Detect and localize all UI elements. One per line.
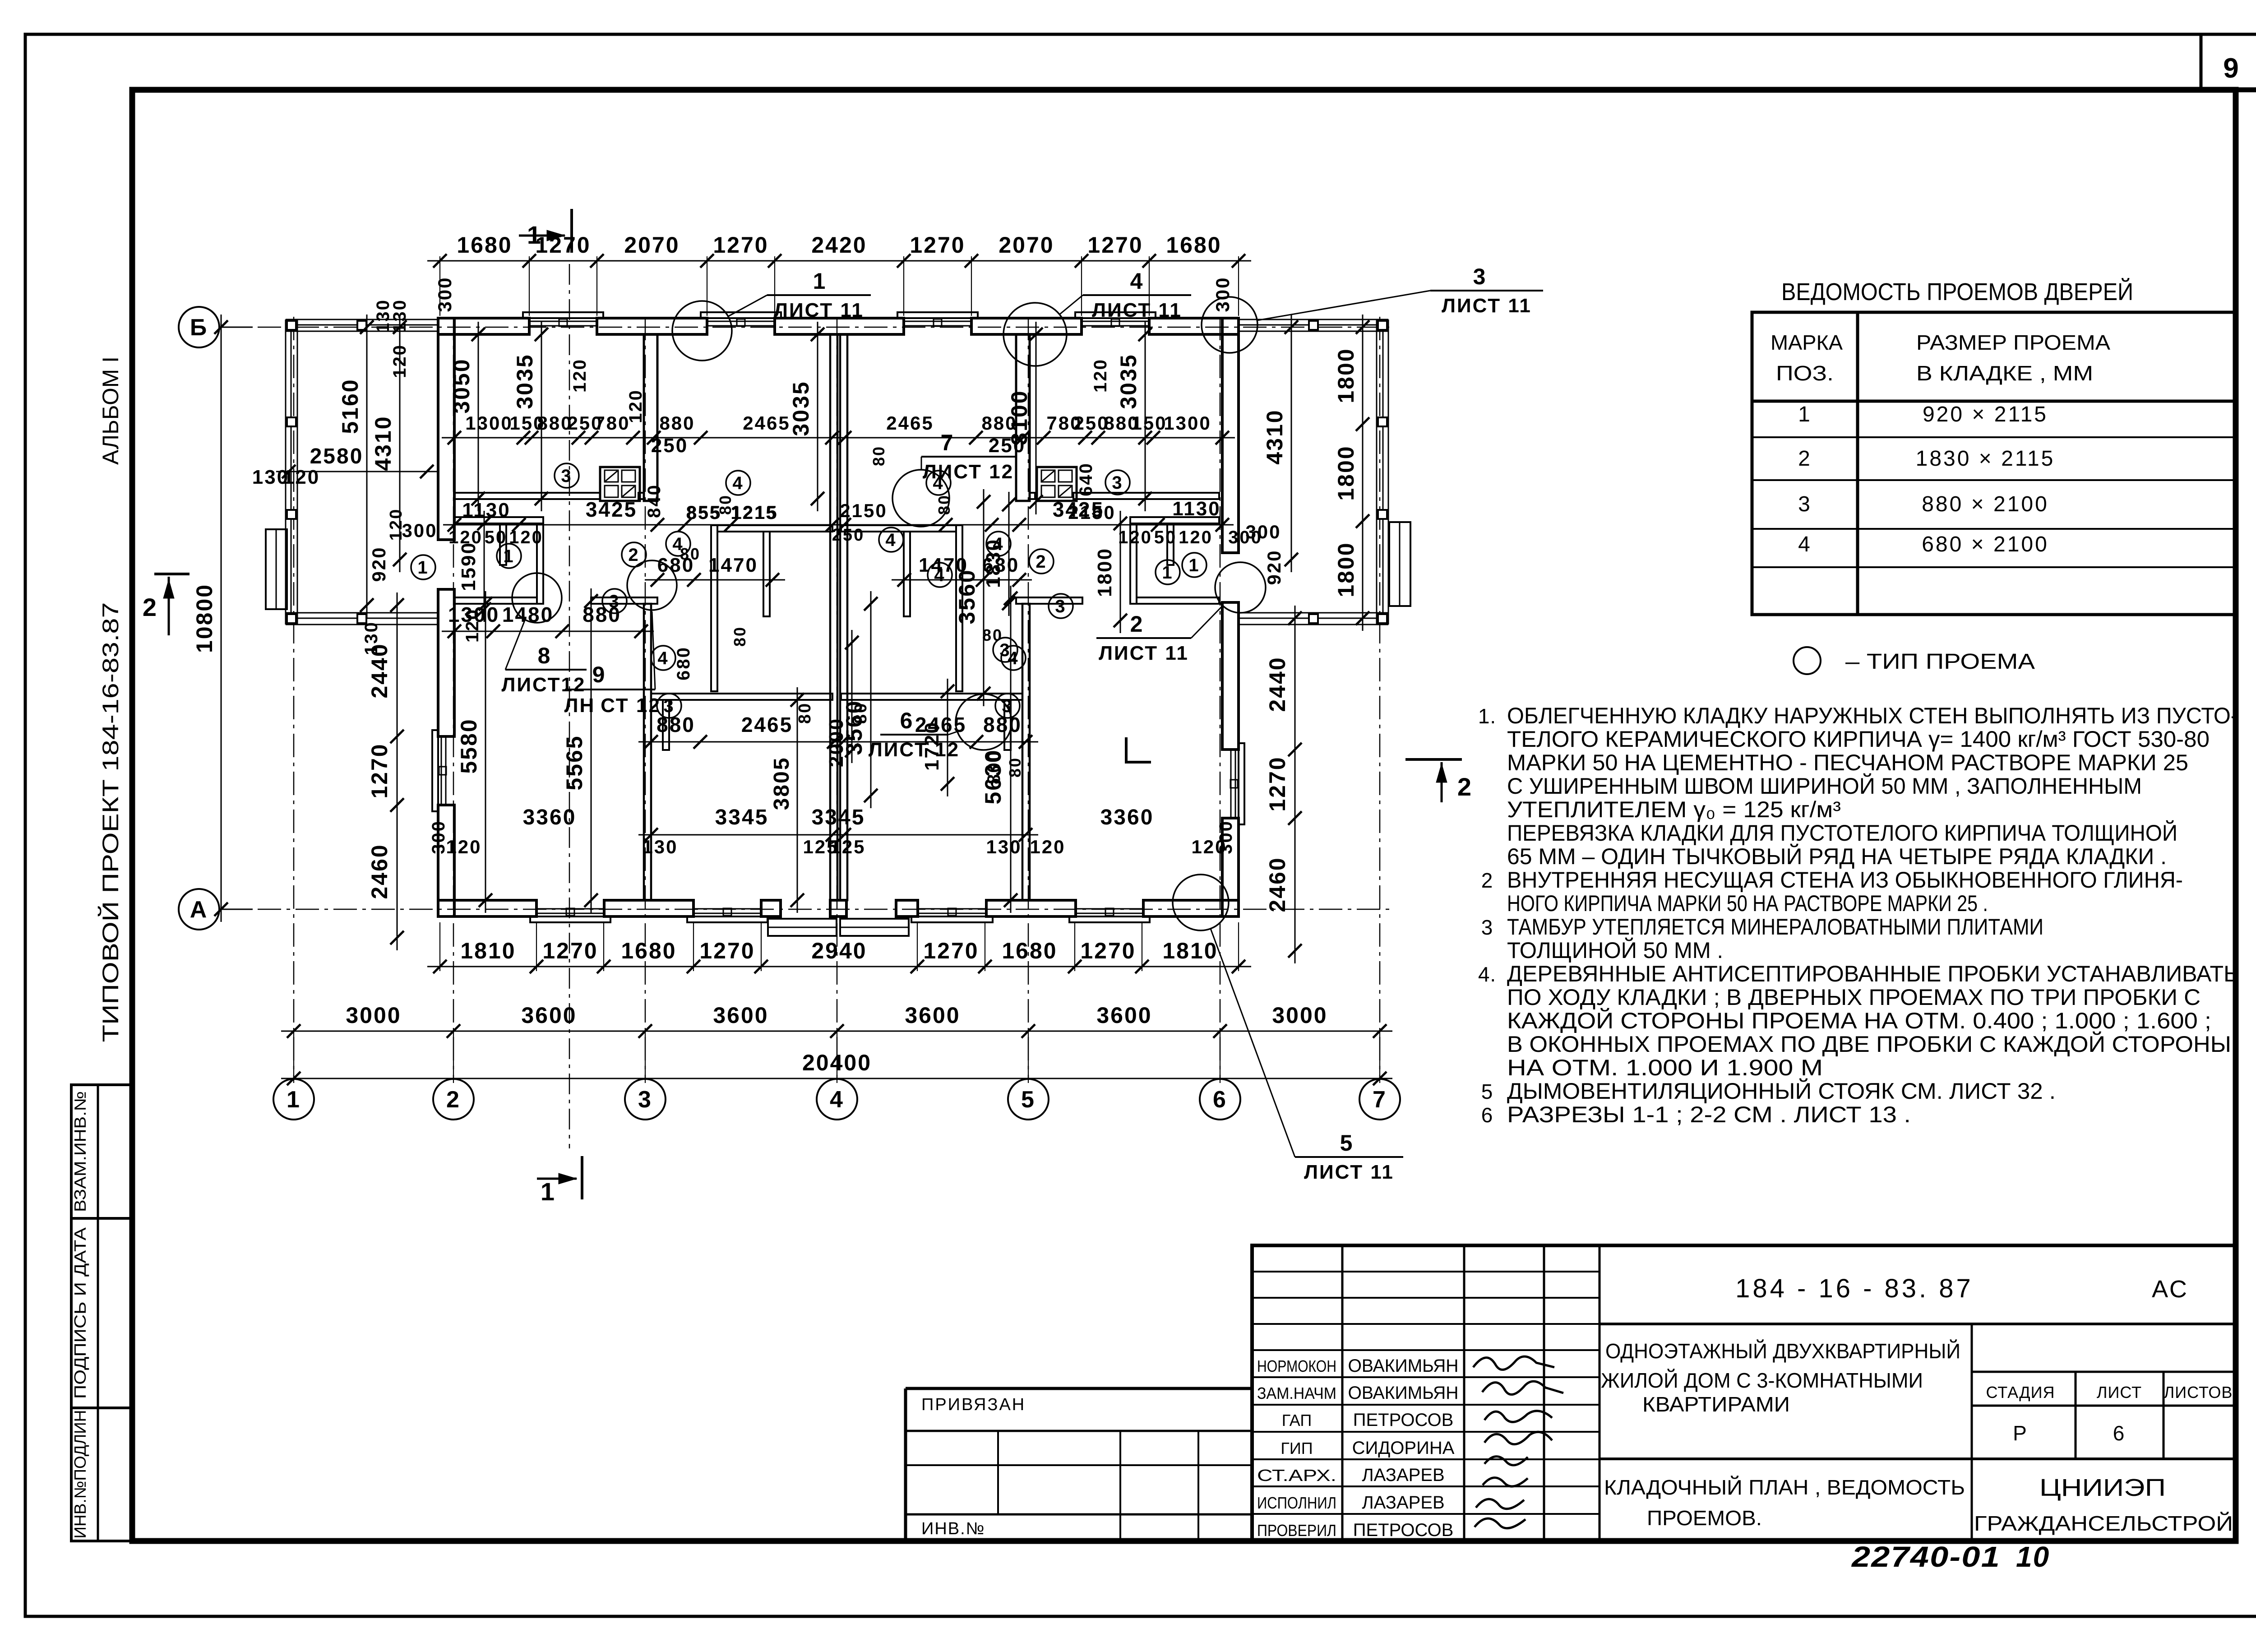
svg-text:ПЕТРОСОВ: ПЕТРОСОВ xyxy=(1353,1520,1454,1540)
svg-text:50: 50 xyxy=(1154,528,1177,547)
svg-text:920 × 2115: 920 × 2115 xyxy=(1923,403,2048,426)
svg-text:80: 80 xyxy=(869,445,888,466)
svg-text:120: 120 xyxy=(446,836,481,857)
svg-text:300: 300 xyxy=(1212,276,1233,312)
porch right step xyxy=(1389,522,1410,606)
svg-text:2150: 2150 xyxy=(840,500,887,521)
svg-text:СТАДИЯ: СТАДИЯ xyxy=(1986,1383,2055,1402)
porch right (veranda) xyxy=(1239,319,1388,625)
svg-text:ДЫМОВЕНТИЛЯЦИОННЫЙ СТОЯК СМ: ДЫМОВЕНТИЛЯЦИОННЫЙ СТОЯК СМ. ЛИСТ 32 . xyxy=(1507,1078,2056,1104)
axis circle Б xyxy=(179,307,253,347)
svg-text:ИНВ.№ПОДЛИН: ИНВ.№ПОДЛИН xyxy=(71,1410,89,1539)
dimension chain depth 1800 right xyxy=(1094,511,1127,633)
svg-text:1270: 1270 xyxy=(1265,756,1290,811)
svg-text:2465: 2465 xyxy=(886,412,934,434)
svg-text:ЛН: ЛН xyxy=(564,694,596,717)
svg-text:3000: 3000 xyxy=(1272,1003,1327,1028)
svg-text:2000: 2000 xyxy=(825,717,847,767)
svg-text:120: 120 xyxy=(1030,836,1065,857)
exterior wall right (axis 6) xyxy=(1222,318,1244,916)
axis line Б horizontal xyxy=(220,327,1394,328)
svg-text:1300: 1300 xyxy=(1164,412,1211,434)
svg-text:1300: 1300 xyxy=(465,412,513,434)
svg-text:22740-01: 22740-01 xyxy=(1851,1541,2001,1573)
svg-text:640: 640 xyxy=(1076,462,1096,496)
svg-text:6: 6 xyxy=(1213,1087,1227,1113)
svg-text:920: 920 xyxy=(1263,549,1285,585)
sidebar box label ВЗАМ.ИНВ.№ xyxy=(71,1091,89,1212)
svg-text:130: 130 xyxy=(361,621,381,655)
svg-text:1680: 1680 xyxy=(1002,938,1057,963)
svg-text:ПЕТРОСОВ: ПЕТРОСОВ xyxy=(1353,1410,1454,1430)
bottom rooms sub labels xyxy=(429,820,1236,857)
exterior wall bottom (axis А) xyxy=(438,900,1239,922)
svg-text:4: 4 xyxy=(1798,532,1812,556)
svg-text:ПЕРЕВЯЗКА КЛАДКИ ДЛЯ ПУСТОТ: ПЕРЕВЯЗКА КЛАДКИ ДЛЯ ПУСТОТЕЛОГО КИРПИЧА… xyxy=(1507,820,2177,846)
svg-text:НОРМОКОН: НОРМОКОН xyxy=(1257,1357,1336,1375)
section trace 1-1 dash-dot xyxy=(569,264,570,1148)
svg-text:СИДОРИНА: СИДОРИНА xyxy=(1352,1438,1455,1458)
small labels left entry xyxy=(361,299,438,655)
svg-text:4: 4 xyxy=(885,530,897,550)
svg-text:1810: 1810 xyxy=(1162,938,1218,963)
svg-text:2940: 2940 xyxy=(811,938,867,963)
svg-text:120: 120 xyxy=(390,344,410,378)
dimension chain porch height 5160 xyxy=(337,315,374,618)
dimension chain hall row right xyxy=(831,498,1234,532)
dimension chain room depth 3035 c xyxy=(1116,322,1152,511)
svg-text:3035: 3035 xyxy=(512,353,537,409)
dimension chain depth 3805 xyxy=(770,687,804,913)
dimension chain room depth 3035 b xyxy=(788,322,824,511)
svg-text:МАРКИ 50 НА ЦЕМЕНТНО - ПЕСЧ: МАРКИ 50 НА ЦЕМЕНТНО - ПЕСЧАНОМ РАСТВОРЕ… xyxy=(1507,750,2188,775)
svg-text:ДЕРЕВЯННЫЕ АНТИСЕПТИРОВАННЫЕ: ДЕРЕВЯННЫЕ АНТИСЕПТИРОВАННЫЕ ПРОБКИ УСТА… xyxy=(1507,961,2238,986)
svg-text:120: 120 xyxy=(387,508,406,541)
svg-text:1810: 1810 xyxy=(460,938,516,963)
exterior wall left (axis 2) xyxy=(432,318,454,916)
svg-text:ТАМБУР УТЕПЛЯЕТСЯ МИНЕРАЛОВА: ТАМБУР УТЕПЛЯЕТСЯ МИНЕРАЛОВАТНЫМИ ПЛИТАМ… xyxy=(1507,914,2043,939)
svg-text:9: 9 xyxy=(2223,53,2240,84)
svg-text:КАЖДОЙ СТОРОНЫ ПРОЕМА НА О: КАЖДОЙ СТОРОНЫ ПРОЕМА НА ОТМ. 0.400 ; 1.… xyxy=(1507,1008,2211,1033)
svg-text:4: 4 xyxy=(830,1087,844,1113)
svg-text:Р: Р xyxy=(2013,1421,2028,1445)
corner symbol xyxy=(1126,737,1151,762)
svg-text:ОБЛЕГЧЕННУЮ КЛАДКУ НАРУЖНЫХ: ОБЛЕГЧЕННУЮ КЛАДКУ НАРУЖНЫХ СТЕН ВЫПОЛНЯ… xyxy=(1507,703,2238,728)
svg-text:780: 780 xyxy=(594,412,630,434)
extension lines bottom xyxy=(440,922,1239,971)
vent block right xyxy=(1037,467,1077,501)
svg-text:10: 10 xyxy=(2016,1541,2050,1573)
svg-text:ПОЗ.: ПОЗ. xyxy=(1776,361,1834,385)
svg-text:РАЗМЕР ПРОЕМА: РАЗМЕР ПРОЕМА xyxy=(1916,331,2110,354)
svg-text:3: 3 xyxy=(1798,492,1812,516)
svg-text:1830 × 2115: 1830 × 2115 xyxy=(1916,447,2055,471)
door schedule table xyxy=(1752,312,2235,615)
svg-text:3360: 3360 xyxy=(523,805,577,829)
svg-text:3: 3 xyxy=(609,592,620,611)
svg-text:2580: 2580 xyxy=(310,444,364,468)
svg-text:ПОДПИСЬ И ДАТА: ПОДПИСЬ И ДАТА xyxy=(71,1227,89,1399)
svg-text:ЛИСТ 11: ЛИСТ 11 xyxy=(1099,642,1189,664)
svg-text:ВНУТРЕННЯЯ НЕСУЩАЯ СТЕНА ИЗ: ВНУТРЕННЯЯ НЕСУЩАЯ СТЕНА ИЗ ОБЫКНОВЕННОГ… xyxy=(1507,867,2183,893)
svg-text:3: 3 xyxy=(663,696,675,716)
svg-text:120: 120 xyxy=(1091,358,1110,393)
callout ЛИСТ 11 xyxy=(1202,264,1543,353)
svg-text:Б: Б xyxy=(190,315,208,341)
svg-text:9: 9 xyxy=(592,662,606,687)
page number box 9 xyxy=(2201,34,2256,90)
svg-text:7: 7 xyxy=(941,430,955,455)
title block frame xyxy=(1252,1245,2235,1541)
svg-text:4: 4 xyxy=(934,565,945,585)
dimension chain mid rooms row left xyxy=(638,713,846,749)
dimension chain bottom windows xyxy=(427,938,1251,973)
sidebar stamp boxes xyxy=(71,1085,132,1541)
svg-text:ЛИСТ12: ЛИСТ12 xyxy=(502,674,586,696)
svg-text:1: 1 xyxy=(287,1087,301,1113)
svg-text:1470: 1470 xyxy=(708,554,758,576)
svg-text:3600: 3600 xyxy=(905,1003,960,1028)
svg-text:РАЗРЕЗЫ 1-1 ; 2-2 СМ .: РАЗРЕЗЫ 1-1 ; 2-2 СМ . ЛИСТ 13 . xyxy=(1507,1102,1911,1127)
svg-text:ЗАМ.НАЧМ: ЗАМ.НАЧМ xyxy=(1257,1384,1336,1402)
svg-text:1270: 1270 xyxy=(699,938,755,963)
svg-text:300: 300 xyxy=(1216,820,1236,854)
dimension chain row left y1391 xyxy=(442,603,654,638)
axis line А horizontal xyxy=(220,909,1394,910)
svg-text:1: 1 xyxy=(541,1177,556,1206)
svg-text:ТОЛЩИНОЙ 50 ММ .: ТОЛЩИНОЙ 50 ММ . xyxy=(1507,937,1723,963)
dimension chain interior row left y970 xyxy=(442,412,845,444)
callout ЛИСТ 12 xyxy=(892,430,1015,527)
svg-text:1270: 1270 xyxy=(1087,232,1143,258)
svg-text:1680: 1680 xyxy=(457,232,512,258)
entrance steps bottom xyxy=(768,919,909,936)
dimension chain left wall chain xyxy=(367,592,404,950)
svg-text:4: 4 xyxy=(672,534,684,554)
svg-text:130: 130 xyxy=(642,836,678,857)
extension lines axes xyxy=(294,1031,1380,1083)
svg-text:3100: 3100 xyxy=(1007,389,1032,445)
svg-text:ЛАЗАРЕВ: ЛАЗАРЕВ xyxy=(1362,1493,1444,1513)
svg-text:4: 4 xyxy=(993,534,1004,554)
dimension chain depth 5630 xyxy=(980,586,1017,913)
svg-text:СТ.АРХ.: СТ.АРХ. xyxy=(1257,1466,1336,1485)
svg-text:ЛИСТ: ЛИСТ xyxy=(2097,1383,2142,1402)
svg-text:2: 2 xyxy=(1457,773,1473,801)
svg-text:КВАРТИРАМИ: КВАРТИРАМИ xyxy=(1642,1393,1790,1416)
porch left (veranda) xyxy=(286,319,438,625)
svg-text:80: 80 xyxy=(851,702,870,724)
section mark 1 top xyxy=(519,209,572,253)
svg-text:3050: 3050 xyxy=(449,358,474,413)
sidebar text ТИПОВОЙ ПРОЕКТ 184-16-83.87 xyxy=(97,602,123,1042)
labels 250 under row xyxy=(651,435,1026,457)
svg-text:ИНВ.№: ИНВ.№ xyxy=(921,1519,985,1538)
hall sub labels left xyxy=(448,502,778,547)
dimension chain bottom rooms row xyxy=(638,805,1038,842)
svg-text:В КЛАДКЕ , ММ: В КЛАДКЕ , ММ xyxy=(1916,361,2093,385)
svg-text:120: 120 xyxy=(626,389,646,423)
svg-text:2: 2 xyxy=(446,1087,461,1113)
svg-text:2: 2 xyxy=(1130,611,1144,637)
section mark 2 left xyxy=(143,574,190,635)
svg-text:3600: 3600 xyxy=(713,1003,768,1028)
svg-text:800: 800 xyxy=(984,750,1004,784)
svg-text:3: 3 xyxy=(1481,916,1493,939)
dimension chain porch width 2580 xyxy=(276,444,439,478)
label 120 under xyxy=(462,608,482,643)
notes text block xyxy=(1478,703,2238,1127)
svg-text:130: 130 xyxy=(390,299,410,333)
interior walls left apartment xyxy=(454,334,832,900)
svg-text:2420: 2420 xyxy=(811,232,867,258)
svg-text:АС: АС xyxy=(2152,1276,2189,1303)
door type markers xyxy=(411,463,1207,718)
svg-text:2: 2 xyxy=(1798,447,1812,471)
dimension chain room depth 3035 a xyxy=(512,322,548,511)
sidebar box label ПОДПИСЬ И ДАТА xyxy=(71,1227,89,1399)
title text xyxy=(1601,1339,1965,1530)
svg-text:1215: 1215 xyxy=(730,502,778,523)
svg-text:АЛЬБОМ I: АЛЬБОМ I xyxy=(98,356,123,465)
table title ВЕДОМОСТЬ ПРОЕМОВ ДВЕРЕЙ xyxy=(1781,278,2133,305)
svg-text:ЛИСТ 11: ЛИСТ 11 xyxy=(1304,1161,1394,1183)
svg-text:2070: 2070 xyxy=(999,232,1054,258)
svg-text:5: 5 xyxy=(1340,1130,1354,1156)
hall sub labels right xyxy=(832,500,1262,547)
stage/sheet labels xyxy=(1986,1383,2233,1445)
dimension chain axis spans xyxy=(281,1003,1392,1038)
svg-text:3: 3 xyxy=(999,640,1011,660)
svg-text:ГРАЖДАНСЕЛЬСТРОЙ: ГРАЖДАНСЕЛЬСТРОЙ xyxy=(1974,1512,2233,1535)
callout ЛИСТ 11 xyxy=(1003,268,1191,366)
svg-text:ЛИСТ 12: ЛИСТ 12 xyxy=(869,739,960,761)
svg-text:4310: 4310 xyxy=(1262,409,1287,464)
svg-text:1270: 1270 xyxy=(713,232,768,258)
svg-text:184 - 16 - 83. 87: 184 - 16 - 83. 87 xyxy=(1735,1274,1974,1303)
svg-text:ТЕЛОГО КЕРАМИЧЕСКОГО КИРПИЧА: ТЕЛОГО КЕРАМИЧЕСКОГО КИРПИЧА γ= 1400 кг/… xyxy=(1507,727,2210,752)
dimension chain overall 20400 xyxy=(281,1050,1392,1085)
svg-text:3035: 3035 xyxy=(788,380,814,436)
svg-text:125: 125 xyxy=(830,836,865,857)
dimension chain 4310 left xyxy=(370,315,407,572)
svg-text:7: 7 xyxy=(1373,1087,1387,1113)
svg-text:2: 2 xyxy=(143,593,158,621)
svg-text:3000: 3000 xyxy=(346,1003,401,1028)
svg-text:2: 2 xyxy=(628,545,639,565)
title block: project number xyxy=(1735,1274,2189,1303)
svg-text:УТЕПЛИТЕЛЕМ γ₀ = 125 кг/м³: УТЕПЛИТЕЛЕМ γ₀ = 125 кг/м³ xyxy=(1507,797,1841,822)
svg-text:1590: 1590 xyxy=(458,541,480,591)
labels 130 120 porch xyxy=(252,466,320,488)
svg-text:3: 3 xyxy=(1112,473,1123,493)
svg-text:4310: 4310 xyxy=(370,415,396,471)
svg-text:3: 3 xyxy=(1473,264,1487,289)
svg-text:3345: 3345 xyxy=(812,805,865,829)
svg-text:1800: 1800 xyxy=(1094,547,1116,597)
svg-text:840: 840 xyxy=(644,484,664,518)
svg-text:2440: 2440 xyxy=(1265,656,1290,712)
axis circles 1..7 xyxy=(273,1079,1400,1120)
svg-text:6: 6 xyxy=(2113,1421,2126,1445)
window mullions xyxy=(439,319,1238,916)
svg-text:ЛИСТ 12: ЛИСТ 12 xyxy=(923,461,1014,483)
dimension chain depth 1830 xyxy=(982,492,1016,616)
small labels right entry xyxy=(1245,521,1285,585)
svg-text:1680: 1680 xyxy=(1166,232,1221,258)
svg-text:880 × 2100: 880 × 2100 xyxy=(1922,492,2049,516)
svg-text:МАРКА: МАРКА xyxy=(1771,331,1843,354)
dimension chain depth 1590 xyxy=(458,511,491,622)
sidebar text АЛЬБОМ I xyxy=(98,356,123,465)
svg-text:2460: 2460 xyxy=(1265,856,1290,912)
svg-text:1800: 1800 xyxy=(1333,347,1359,403)
svg-text:ЛИСТ 11: ЛИСТ 11 xyxy=(774,299,864,321)
svg-text:4.: 4. xyxy=(1478,963,1496,986)
svg-text:1.: 1. xyxy=(1478,704,1496,728)
svg-text:2465: 2465 xyxy=(741,713,793,736)
svg-text:3560: 3560 xyxy=(954,569,980,624)
title block: names column xyxy=(1257,1356,1459,1540)
svg-text:300: 300 xyxy=(434,276,455,312)
svg-text:130: 130 xyxy=(986,836,1022,857)
room width labels 3360 xyxy=(523,805,1154,829)
dimension chain depth 2000 xyxy=(825,630,859,767)
svg-text:1270: 1270 xyxy=(367,743,392,798)
svg-text:НОГО КИРПИЧА МАРКИ 50 НА: НОГО КИРПИЧА МАРКИ 50 НА РАСТВОРЕ МАРКИ … xyxy=(1507,891,1988,916)
svg-text:2: 2 xyxy=(1481,869,1493,892)
dimension chain depth 3560 right xyxy=(954,489,990,706)
svg-text:А: А xyxy=(190,897,208,923)
svg-text:ЛИСТ 11: ЛИСТ 11 xyxy=(1442,295,1532,317)
porch left step xyxy=(266,529,287,609)
dimension chain room depth 3050 xyxy=(449,322,485,511)
svg-text:ПО ХОДУ КЛАДКИ ; В ДВЕРНЫХ: ПО ХОДУ КЛАДКИ ; В ДВЕРНЫХ ПРОЕМАХ ПО ТР… xyxy=(1507,985,2201,1010)
handwritten 22740-01 10 xyxy=(1851,1541,2050,1573)
dimension chain depth 5565 xyxy=(562,588,598,913)
svg-text:1800: 1800 xyxy=(1333,445,1359,500)
svg-text:1130: 1130 xyxy=(462,499,510,521)
svg-text:4: 4 xyxy=(732,473,744,493)
svg-text:65 ММ – ОДИН ТЫЧКОВЫЙ РЯД: 65 ММ – ОДИН ТЫЧКОВЫЙ РЯД НА ЧЕТЫРЕ РЯДА… xyxy=(1507,843,2167,869)
callout ЛИСТ 11 xyxy=(1173,875,1403,1183)
sidebar box label ИНВ.№ПОДЛИН xyxy=(71,1410,89,1539)
svg-text:1: 1 xyxy=(417,558,429,578)
svg-text:5565: 5565 xyxy=(562,735,587,790)
svg-text:3600: 3600 xyxy=(1096,1003,1152,1028)
svg-text:3: 3 xyxy=(1055,597,1066,616)
svg-text:80: 80 xyxy=(795,702,814,724)
callout ЛИСТ 11 xyxy=(1096,562,1266,664)
misc small labels xyxy=(570,358,1110,784)
svg-text:ЛИСТ 11: ЛИСТ 11 xyxy=(1092,299,1182,321)
dimension chain hall row left xyxy=(443,498,846,532)
callout 9 ЛН СТ 12 xyxy=(564,560,677,717)
svg-text:1800: 1800 xyxy=(1333,541,1359,597)
svg-text:ПРОЕМОВ.: ПРОЕМОВ. xyxy=(1647,1506,1762,1530)
svg-text:ОВАКИМЬЯН: ОВАКИМЬЯН xyxy=(1348,1383,1459,1403)
svg-text:6: 6 xyxy=(1481,1103,1493,1127)
dimension chain depth 5580 xyxy=(456,591,492,913)
svg-text:ОВАКИМЬЯН: ОВАКИМЬЯН xyxy=(1348,1356,1459,1376)
axis circle А xyxy=(179,889,253,930)
svg-text:ЖИЛОЙ ДОМ С 3-КОМНАТНЫМИ: ЖИЛОЙ ДОМ С 3-КОМНАТНЫМИ xyxy=(1601,1369,1923,1392)
svg-text:680: 680 xyxy=(674,646,693,680)
dimension chain right porch 1800x3 xyxy=(1333,315,1369,631)
svg-text:ВЗАМ.ИНВ.№: ВЗАМ.ИНВ.№ xyxy=(71,1091,89,1212)
svg-text:3: 3 xyxy=(561,466,572,486)
section mark 1 bottom xyxy=(537,1156,582,1206)
svg-text:КЛАДОЧНЫЙ ПЛАН , ВЕДОМОСТЬ: КЛАДОЧНЫЙ ПЛАН , ВЕДОМОСТЬ xyxy=(1604,1476,1965,1499)
svg-text:1: 1 xyxy=(1162,563,1173,583)
svg-text:3345: 3345 xyxy=(715,805,769,829)
svg-text:ЛАЗАРЕВ: ЛАЗАРЕВ xyxy=(1362,1465,1444,1485)
dimension chain depth 1720 xyxy=(921,679,954,796)
svg-text:2465: 2465 xyxy=(743,412,790,434)
svg-text:С УШИРЕННЫМ ШВОМ ШИРИНОЙ: С УШИРЕННЫМ ШВОМ ШИРИНОЙ 50 ММ , ЗАПОЛНЕ… xyxy=(1507,773,2142,799)
svg-text:1680: 1680 xyxy=(621,938,676,963)
svg-text:2: 2 xyxy=(1036,552,1047,572)
svg-text:80: 80 xyxy=(1006,757,1024,777)
svg-text:ИСПОЛНИЛ: ИСПОЛНИЛ xyxy=(1257,1494,1336,1512)
svg-text:2070: 2070 xyxy=(624,232,680,258)
dimension chain kitchen row left xyxy=(645,554,785,587)
svg-text:3600: 3600 xyxy=(521,1003,577,1028)
svg-text:СТ 12: СТ 12 xyxy=(601,694,661,717)
svg-text:ГИП: ГИП xyxy=(1281,1439,1313,1458)
svg-text:1270: 1270 xyxy=(923,938,979,963)
dimension chain overall 10800 xyxy=(192,315,228,922)
svg-text:1270: 1270 xyxy=(910,232,965,258)
svg-text:ЛИСТОВ: ЛИСТОВ xyxy=(2164,1383,2233,1402)
dimension chain interior row right y970 xyxy=(832,412,1235,444)
axis grid lines 1..7 xyxy=(294,317,1380,1078)
svg-text:3360: 3360 xyxy=(1100,805,1154,829)
title block left extension ПРИВЯЗАН xyxy=(906,1388,1252,1541)
svg-text:150: 150 xyxy=(1131,412,1167,434)
svg-text:4: 4 xyxy=(1130,268,1144,294)
svg-text:– ТИП ПРОЕМА: – ТИП ПРОЕМА xyxy=(1845,650,2035,674)
svg-text:80: 80 xyxy=(730,626,749,647)
svg-text:4: 4 xyxy=(657,648,669,668)
svg-text:ОДНОЭТАЖНЫЙ ДВУХКВАРТИРНЫЙ: ОДНОЭТАЖНЫЙ ДВУХКВАРТИРНЫЙ xyxy=(1605,1339,1960,1363)
svg-text:3805: 3805 xyxy=(770,757,794,810)
svg-text:1270: 1270 xyxy=(542,938,598,963)
dimension chain room depth 3100 xyxy=(1007,322,1043,514)
extension lines top xyxy=(440,256,1239,316)
svg-text:880: 880 xyxy=(659,412,695,434)
svg-text:ЦНИИЭП: ЦНИИЭП xyxy=(2039,1474,2166,1501)
svg-text:120: 120 xyxy=(283,466,320,488)
svg-text:680 × 2100: 680 × 2100 xyxy=(1922,532,2049,556)
svg-text:300: 300 xyxy=(429,820,448,854)
svg-text:300: 300 xyxy=(402,520,437,541)
callout 8 ЛИСТ12 xyxy=(502,573,587,696)
svg-text:80: 80 xyxy=(716,494,735,515)
svg-text:2460: 2460 xyxy=(367,843,392,899)
party wall axis 4 (double) xyxy=(830,334,847,900)
svg-text:ПРИВЯЗАН: ПРИВЯЗАН xyxy=(921,1395,1026,1414)
svg-text:6: 6 xyxy=(900,708,914,733)
svg-text:1: 1 xyxy=(1798,403,1812,426)
svg-text:120: 120 xyxy=(1118,528,1152,547)
svg-text:300: 300 xyxy=(1228,528,1262,547)
svg-text:3425: 3425 xyxy=(586,498,637,521)
dimension chain mid rooms row right xyxy=(830,713,1038,749)
svg-text:5580: 5580 xyxy=(456,718,481,773)
svg-text:1480: 1480 xyxy=(502,603,554,626)
svg-text:1: 1 xyxy=(813,268,827,294)
